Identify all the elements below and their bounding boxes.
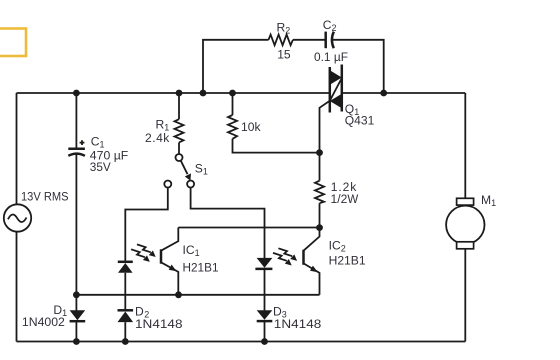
wire: IC1 LED down across y295 wire to D2	[124, 273, 126, 311]
capacitor C2 right curved plate	[332, 32, 334, 49]
wire: top loop up from rail at x=203	[203, 40, 269, 93]
diode D3 triangle (pointing down)	[257, 310, 273, 320]
resistor 10k zigzag	[228, 115, 237, 139]
wire: right throw down, right, down to IC2 LED	[191, 188, 265, 258]
phototransistor IC2 base bar	[302, 250, 305, 265]
wire: IC2 LED down across y295 wire to D3	[264, 269, 266, 311]
capacitor C1 top plate	[68, 147, 85, 150]
AC source sine wave	[8, 215, 27, 222]
resistor 1.2k wire from gate node	[319, 153, 321, 181]
diode D1 cathode bar	[70, 320, 86, 323]
motor M1 circle	[446, 206, 484, 244]
wire: R1 branch down from rail	[178, 93, 180, 119]
switch S1 left throw contact circle	[164, 181, 171, 188]
AC source circle	[4, 204, 31, 231]
opto LED of IC1 cathode bar (top)	[118, 261, 133, 264]
svg-text:Q431: Q431	[345, 114, 375, 128]
light arrows into IC2	[278, 248, 297, 261]
resistor R1 zigzag	[175, 119, 184, 142]
svg-text:35V: 35V	[90, 160, 112, 174]
wire: R2 to C2	[293, 39, 326, 41]
wire: D3 to bottom rail	[264, 321, 266, 341]
wire: triac gate down to gate node	[320, 101, 330, 153]
triac Q1 upper triangle (pointing right)	[330, 70, 342, 84]
svg-text:1N4002: 1N4002	[22, 315, 65, 329]
wire: R1 to switch pole	[178, 143, 180, 155]
svg-text:2.4k: 2.4k	[145, 131, 170, 145]
triac Q1 left bar	[329, 67, 332, 113]
wire: C1 down through tee to D1	[75, 154, 77, 311]
svg-text:1/2W: 1/2W	[331, 192, 359, 206]
capacitor C2 left plate	[324, 32, 327, 49]
light arrows into IC1	[137, 244, 156, 257]
resistor R2 zigzag	[269, 35, 293, 46]
wire: motor column top	[464, 93, 466, 198]
plus sign of C1	[80, 140, 85, 145]
diode D3 cathode bar	[257, 320, 273, 323]
yellow highlight box (cut off at left edge)	[0, 29, 26, 57]
wire: bottom rail	[17, 341, 466, 343]
motor M1 top brush rect	[457, 198, 474, 205]
resistor 1.2k zigzag	[315, 181, 324, 204]
wire: rail y=93 right of triac to motor column	[342, 92, 466, 94]
phototransistor IC1 emitter with arrow	[161, 262, 178, 295]
wire: 10k branch down from rail	[232, 93, 234, 115]
switch S1 pole contact circle	[176, 154, 183, 161]
svg-text:1N4148: 1N4148	[135, 317, 183, 331]
svg-text:13V RMS: 13V RMS	[21, 189, 69, 203]
svg-text:H21B1: H21B1	[329, 254, 366, 268]
wire: 10k bottom right to gate node	[233, 139, 320, 153]
phototransistor IC2 collector from node	[304, 228, 320, 251]
wire: C1 branch down from rail	[75, 93, 77, 148]
motor M1 bottom brush rect	[457, 242, 474, 249]
wire: D1 to bottom rail	[75, 321, 77, 341]
diode D2 cathode bar (top)	[118, 309, 134, 312]
switch S1 right throw contact circle	[187, 181, 194, 188]
phototransistor IC1 collector	[161, 228, 178, 251]
svg-text:10k: 10k	[241, 120, 261, 134]
wire: left throw down and left to x=125.3 column	[125, 188, 168, 262]
triac Q1 lower triangle (pointing left)	[330, 94, 342, 108]
svg-text:15: 15	[277, 48, 291, 62]
junction dots	[73, 90, 80, 97]
capacitor C1 bottom curved plate	[68, 154, 85, 156]
phototransistor IC2 emitter with arrow	[304, 263, 320, 294]
wire: left vertical rail from top-left corner down to bottom-left corner	[16, 93, 18, 342]
svg-text:H21B1: H21B1	[183, 260, 219, 274]
diode D2 triangle (pointing up)	[118, 312, 134, 323]
wire: top rail y=93 from left corner to triac left bar	[17, 92, 330, 94]
diode D1 triangle (pointing down)	[70, 310, 86, 320]
svg-text:1N4148: 1N4148	[274, 317, 322, 331]
opto LED of IC2 triangle (pointing down)	[257, 258, 273, 268]
wire: IC1 collector run to collector node	[178, 227, 319, 229]
svg-text:0.1 µF: 0.1 µF	[314, 50, 348, 64]
phototransistor IC1 base bar	[160, 249, 163, 263]
opto LED of IC1 triangle (pointing up)	[118, 263, 133, 273]
opto LED of IC2 cathode bar (bottom)	[255, 268, 272, 271]
triac Q1 right bar	[341, 65, 344, 112]
wire: emitter bus y=294.8	[76, 294, 319, 296]
triac Q1 internal diagonal	[330, 78, 342, 101]
wire: C2 to top-right corner and down to rail	[332, 40, 384, 93]
wire: D2 to bottom rail	[124, 322, 126, 341]
switch S1 blade with arrowhead	[181, 161, 188, 175]
wire: 1.2k bottom to collector node	[319, 203, 321, 227]
wire: motor column bottom	[464, 249, 466, 342]
